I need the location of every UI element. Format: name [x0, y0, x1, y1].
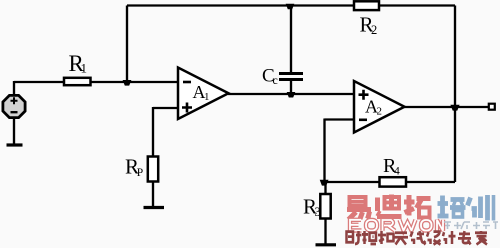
watermark small char 设 — [427, 232, 441, 245]
wire: A2 inverting input vertical down to node B — [323, 119, 325, 183]
watermark big char 1 (red) — [347, 197, 371, 220]
wire: vertical down to Rp — [152, 107, 154, 157]
wire: feedback bottom through R4 — [325, 181, 456, 183]
op-amp A2 — [354, 81, 405, 133]
wire: vertical from node A up to top feedback — [126, 6, 128, 83]
watermark small char 家 — [475, 231, 487, 244]
watermark faint small text (right) — [444, 222, 498, 229]
wire: Rp to ground — [152, 182, 154, 207]
wire: source top vertical — [13, 81, 15, 96]
watermark hollow letter row — [350, 220, 443, 231]
watermark small char 天 — [394, 233, 408, 245]
wire: Cc bottom to main wire — [290, 80, 292, 94]
wire: A1 non-inverting input — [153, 107, 178, 109]
watermark small char 专 — [458, 231, 471, 244]
source VS (signal generator) — [3, 95, 25, 117]
resistor Rp — [148, 157, 158, 182]
node B (R3/R4 junction) — [320, 180, 329, 186]
watermark small char 线 — [411, 231, 426, 244]
node (A2 output junction) — [450, 105, 459, 111]
svg-text:2: 2 — [377, 106, 383, 118]
wire: R3 top — [324, 182, 326, 194]
node (top wire / Cc branch) — [286, 4, 295, 9]
op-amp A1 — [178, 68, 229, 120]
wire: Cc top branch from top feedback — [290, 6, 292, 73]
watermark big char 4 (blue) — [438, 196, 466, 218]
node (Cc bottom / main wire) — [287, 92, 296, 98]
svg-text:3: 3 — [315, 205, 321, 219]
capacitor Cc — [279, 74, 303, 80]
svg-text:1: 1 — [81, 61, 88, 76]
svg-text:P: P — [137, 167, 143, 179]
wire: A1 output to A2 non-inverting input — [228, 93, 354, 95]
watermark small char 和 — [378, 231, 394, 244]
svg-text:1: 1 — [204, 91, 210, 103]
svg-text:c: c — [273, 73, 278, 87]
ground (Rp) — [144, 206, 165, 209]
watermark small char 频 — [362, 231, 376, 244]
resistor R3 — [320, 194, 330, 219]
watermark big char 5 (blue) — [468, 195, 494, 221]
svg-text:2: 2 — [371, 23, 377, 37]
resistor R1 — [64, 78, 91, 85]
watermark small char 计 — [443, 231, 456, 244]
wire: top feedback from node A to right rail — [127, 4, 455, 6]
resistor R2 — [354, 1, 379, 10]
wire: A2 output to terminal — [404, 106, 489, 108]
resistor R4 — [380, 177, 407, 186]
output terminal — [489, 104, 495, 110]
node A (R1/top feedback junction) — [123, 80, 132, 86]
wire: source to A1 inverting input through R1 — [14, 81, 178, 83]
watermark big char 2 (red) — [377, 195, 402, 217]
wire: R3 bottom to ground — [324, 219, 326, 245]
watermark small char 射 — [347, 231, 362, 244]
wire: right rail vertical — [454, 6, 456, 183]
ground (R3) — [316, 243, 337, 246]
watermark big char 3 (red) — [404, 195, 431, 218]
svg-text:4: 4 — [394, 166, 400, 178]
wire: A2 inverting input horizontal — [325, 118, 355, 120]
ground (source) — [7, 143, 23, 146]
wire: source bottom to ground — [13, 118, 15, 145]
